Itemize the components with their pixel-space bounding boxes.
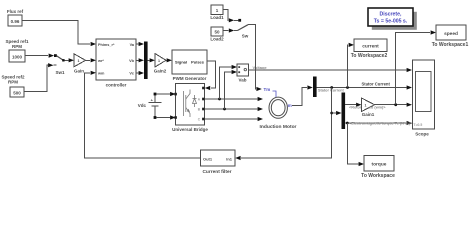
- wire Speed ref1 to switch Sw1 input 1: [25, 54, 57, 58]
- svg-text:1000: 1000: [12, 55, 23, 60]
- label Load1: [210, 15, 224, 20]
- svg-text:Gain2: Gain2: [154, 69, 167, 74]
- label Gain: [74, 69, 84, 74]
- junction speed tap: [394, 103, 397, 106]
- label To Workspace2: [351, 53, 388, 59]
- wire mux to gain Gain2: [148, 58, 155, 62]
- wire Vab voltage to scope input 1: [249, 68, 413, 72]
- scope block: [413, 60, 435, 129]
- constant block Speed ref1 label: [5, 39, 29, 49]
- mux Mux (black bar): [144, 42, 148, 80]
- wire gain to controller input 2: [85, 58, 97, 62]
- subsystem block controller: [96, 39, 136, 80]
- label Scope: [415, 132, 429, 137]
- svg-text:Vdc: Vdc: [138, 103, 147, 108]
- label Universal Bridge: [172, 127, 208, 132]
- to workspace block speed: [436, 25, 466, 40]
- constant block Speed ref1 (1000): [9, 50, 25, 62]
- constant block Flux ref label: [7, 9, 24, 14]
- wire Gain2 to PWM Generator: [166, 58, 172, 62]
- svg-text:Gain: Gain: [74, 69, 84, 74]
- voltage measurement block Vab: [237, 64, 249, 76]
- signal label Stator Current: [362, 81, 391, 86]
- constant block Load1 label: [211, 5, 223, 15]
- label Sw1: [55, 70, 65, 75]
- wire controller output 3 to mux: [136, 71, 144, 75]
- svg-text:Signal: Signal: [175, 60, 187, 65]
- svg-text:Vc: Vc: [129, 72, 134, 76]
- svg-text:Scope: Scope: [415, 132, 429, 137]
- block Universal Bridge: [174, 84, 204, 126]
- svg-text:Flux ref: Flux ref: [7, 9, 24, 14]
- svg-text:wm: wm: [97, 72, 105, 76]
- svg-text:Universal Bridge: Universal Bridge: [172, 127, 208, 132]
- wire controller output 1 to mux: [136, 42, 144, 46]
- wire bridge phase B to motor: [205, 107, 264, 111]
- label controller: [106, 83, 127, 88]
- svg-text:Ts = 5e-005 s.: Ts = 5e-005 s.: [374, 19, 408, 25]
- junction stator wire to workspace tap: [346, 86, 349, 89]
- signal label StatorCurrent: [318, 89, 344, 93]
- label Gain2: [154, 69, 167, 74]
- wire Flux ref to controller input 1: [22, 21, 96, 47]
- constant block Load2 (50): [211, 27, 223, 36]
- svg-text:To Workspace: To Workspace: [361, 173, 395, 178]
- wire Load2 to switch Sw input 2: [223, 28, 238, 32]
- svg-text:1: 1: [78, 59, 80, 63]
- svg-text:Sw: Sw: [242, 34, 249, 39]
- wire bridge phase A to motor: [205, 97, 264, 101]
- wire switch Sw1 to gain: [65, 58, 75, 62]
- wire stator current up to current workspace block: [348, 43, 355, 88]
- signal label Rotor speed (wm): [349, 106, 386, 110]
- wire demux rotor speed to Gain1: [345, 103, 361, 107]
- svg-text:current: current: [362, 44, 379, 50]
- svg-text:PWM Generator: PWM Generator: [173, 76, 207, 81]
- port label m (blue): [288, 103, 292, 108]
- svg-text:Sw1: Sw1: [55, 70, 65, 75]
- wire current filter feedback to controller input 3: [85, 71, 201, 158]
- constant block Speed ref2 label: [1, 75, 25, 85]
- label To Workspace: [361, 173, 395, 179]
- wire phase B tap to Vab minus: [225, 70, 238, 109]
- svg-text:0.96: 0.96: [11, 19, 20, 24]
- wire PWM Generator pulses to bridge gate: [205, 61, 216, 90]
- svg-text:In1: In1: [226, 157, 233, 162]
- svg-text:Tm: Tm: [264, 87, 271, 92]
- wire torque down to torque workspace block: [347, 123, 364, 166]
- constant block Flux ref (0.96): [8, 15, 22, 26]
- wire to demux input: [332, 111, 342, 115]
- svg-text:Discrete,: Discrete,: [380, 12, 402, 18]
- constant block Speed ref2 (500): [10, 87, 24, 97]
- selector block Stator Current (black bar): [313, 77, 317, 98]
- to workspace block torque: [364, 156, 394, 172]
- svg-text:Vab: Vab: [238, 78, 246, 83]
- wire Gain1 to scope input 3: [375, 103, 413, 107]
- svg-text:Gain1: Gain1: [362, 112, 375, 117]
- wire controller output 2 to mux: [136, 58, 144, 62]
- DC voltage source Vdc (battery): [149, 94, 162, 118]
- svg-text:Phims_r*: Phims_r*: [98, 43, 115, 47]
- label Vab: [238, 78, 246, 83]
- induction motor block (asynchronous machine): [269, 97, 287, 118]
- svg-text:Voltage: Voltage: [253, 65, 268, 70]
- label Gain1: [362, 112, 375, 117]
- wire Load1 to switch Sw input 1: [223, 10, 241, 23]
- svg-text:controller: controller: [106, 83, 127, 88]
- svg-text:torque: torque: [372, 162, 387, 168]
- subsystem block Current filter (reversed): [201, 150, 236, 166]
- gain Gain2 (triangle): [155, 54, 166, 68]
- svg-text:To Workspace2: To Workspace2: [351, 53, 388, 59]
- svg-text:RPM: RPM: [8, 80, 18, 85]
- label Load2: [210, 37, 224, 42]
- svg-text:m: m: [288, 103, 292, 108]
- junction stator wire to feedback: [330, 86, 333, 89]
- wire rotor speed up to speed workspace block: [396, 30, 436, 104]
- svg-text:Load1: Load1: [210, 15, 224, 20]
- svg-text:Vb: Vb: [129, 59, 135, 63]
- label Vdc: [138, 103, 147, 108]
- wire demux torque to scope input 4: [345, 121, 412, 125]
- svg-text:50: 50: [214, 30, 220, 35]
- gain Gain (triangle): [74, 54, 86, 67]
- block PWM Generator: [172, 50, 207, 74]
- signal label Voltage: [253, 65, 268, 70]
- svg-text:Stator Current: Stator Current: [362, 81, 391, 86]
- junction torque tap: [346, 122, 349, 125]
- svg-text:1: 1: [158, 59, 160, 63]
- wire Vdc plus to bridge: [154, 92, 176, 96]
- to workspace block current: [354, 39, 387, 52]
- wire motor m to selector: [292, 85, 313, 105]
- wire Speed ref2 to switch Sw1 input 2: [24, 63, 57, 91]
- wire phase A tap to Vab plus: [220, 65, 238, 99]
- port label Tm (blue): [264, 87, 277, 97]
- label Sw: [242, 34, 249, 39]
- svg-text:T=0.5: T=0.5: [414, 123, 423, 127]
- wire stator current to scope input 2: [317, 85, 412, 89]
- label To Workspace1: [432, 42, 469, 48]
- svg-text:speed: speed: [444, 31, 458, 37]
- junction phase B tap: [223, 108, 226, 111]
- label Current filter: [202, 169, 231, 175]
- svg-text:RPM: RPM: [12, 44, 22, 49]
- powergui block Discrete: [368, 8, 417, 30]
- svg-text:To Workspace1: To Workspace1: [432, 42, 469, 48]
- wire switch Sw to motor Tm: [248, 25, 262, 91]
- wire stator current down to demux and current filter: [235, 88, 332, 161]
- label PWM Generator: [173, 76, 207, 81]
- label Induction Motor: [260, 124, 297, 130]
- svg-text:<Electromagnetic torque Te (N*: <Electromagnetic torque Te (N*m)>: [349, 122, 413, 126]
- manual switch Sw: [238, 25, 249, 31]
- svg-text:Pulses: Pulses: [191, 60, 205, 65]
- svg-text:Out1: Out1: [203, 157, 213, 162]
- junction demux tap: [330, 112, 333, 115]
- svg-text:Current filter: Current filter: [202, 169, 231, 175]
- gain Gain1 (triangle): [362, 98, 375, 112]
- svg-text:Induction Motor: Induction Motor: [260, 124, 297, 130]
- svg-text:1: 1: [365, 104, 367, 108]
- svg-text:Load2: Load2: [210, 37, 224, 42]
- wire Vdc minus to bridge: [154, 115, 176, 119]
- junction phase A tap: [218, 98, 221, 101]
- manual switch Sw1: [57, 56, 65, 62]
- demux (black bar): [342, 93, 346, 130]
- wire bridge phase C to motor: [205, 117, 264, 121]
- svg-text:wr*: wr*: [97, 59, 104, 63]
- signal label Electromagnetic torque Te: [349, 122, 413, 126]
- svg-text:500: 500: [13, 91, 21, 96]
